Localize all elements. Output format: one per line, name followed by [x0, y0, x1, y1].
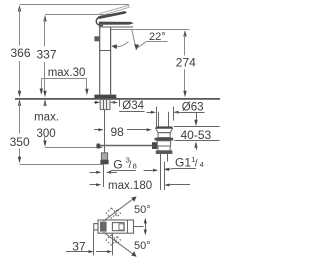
350 horizontal extension to hose end	[20, 164, 104, 166]
waste knob stem	[158, 112, 160, 127]
svg-text:4: 4	[200, 160, 204, 169]
svg-text:G1: G1	[175, 156, 191, 170]
svg-text:37: 37	[72, 239, 86, 253]
spout dark block	[100, 222, 107, 232]
swivel ray lower	[104, 232, 135, 255]
waste flange	[156, 126, 173, 128]
G1 1/4 pipe arrows	[144, 170, 153, 172]
svg-text:max.: max.	[34, 111, 59, 123]
dimension 274 extension line (spout underside level)	[111, 29, 190, 31]
waste body	[157, 141, 170, 146]
diameter 63 arrows	[147, 112, 152, 114]
body column right edge	[110, 27, 112, 95]
22 degree arc arrow	[115, 42, 129, 47]
cartridge rect	[112, 223, 124, 231]
spout top blade	[99, 22, 134, 25]
svg-text:max.180: max.180	[108, 180, 152, 192]
pop-up rod	[99, 145, 152, 147]
swivel span arrows	[134, 226, 144, 228]
hose end extension line	[103, 164, 105, 187]
aerator outlet	[94, 36, 99, 41]
dimension max.300 vertical line below counter	[43, 99, 46, 106]
svg-text:98: 98	[111, 125, 125, 139]
dimension 366 vertical line	[18, 5, 21, 12]
dimension 274 vertical line	[183, 30, 186, 37]
dimension 337 vertical line	[43, 15, 46, 22]
svg-text:350: 350	[10, 135, 30, 149]
locknut	[156, 151, 172, 154]
lever handle (down)	[98, 11, 127, 19]
body plan rect	[98, 220, 134, 233]
rod knob	[96, 144, 100, 149]
rod clamp	[152, 142, 157, 149]
svg-text:Ø63: Ø63	[182, 102, 204, 114]
dimension 350 vertical line below counter	[18, 99, 21, 106]
svg-text:G: G	[113, 157, 122, 171]
swivel square upper (dashed)	[106, 208, 116, 218]
lever raised outline	[99, 5, 128, 13]
svg-text:50°: 50°	[134, 240, 151, 252]
diameter 34 arrows	[94, 102, 99, 104]
G1 1/4 underline	[173, 168, 197, 170]
22 degree ray from spout corner	[132, 30, 137, 50]
body column left edge	[99, 25, 101, 95]
tailpipe upper	[160, 154, 162, 162]
22 degree label leader	[146, 41, 168, 43]
base plate	[94, 95, 116, 99]
dimension 98 right segment	[127, 129, 147, 131]
svg-text:/: /	[195, 159, 198, 170]
dimension 37 extension lines	[93, 231, 95, 256]
svg-text:50°: 50°	[134, 204, 151, 216]
svg-text:/: /	[129, 160, 132, 171]
lever pivot	[96, 17, 103, 26]
svg-text:366: 366	[11, 46, 31, 60]
svg-text:8: 8	[133, 162, 137, 171]
svg-text:40-53: 40-53	[181, 128, 212, 142]
svg-text:Ø34: Ø34	[122, 100, 144, 112]
body joint line	[100, 50, 111, 52]
svg-text:300: 300	[37, 128, 56, 140]
40-53 bottom arrow	[194, 141, 197, 148]
max.300 horizontal extension to rod knob	[45, 147, 98, 149]
dimension 366 extension line top	[20, 4, 130, 6]
max.180 right arrow	[164, 184, 169, 187]
40-53 top arrow	[196, 113, 198, 122]
tailpipe lower	[160, 162, 162, 191]
dimension 98 left arrow	[94, 129, 99, 131]
max.180 left arrow	[90, 184, 97, 186]
svg-text:max.30: max.30	[48, 67, 86, 79]
countertop line	[15, 98, 220, 100]
diameter 63 extension ticks	[156, 107, 158, 127]
swivel square lower (dashed)	[106, 235, 116, 245]
o-ring	[155, 138, 174, 141]
waste neck	[158, 133, 170, 138]
dimension 337 extension line top	[45, 14, 116, 16]
dimension 37 line	[66, 251, 89, 253]
spout blade underside edge	[99, 26, 133, 28]
svg-text:274: 274	[176, 55, 196, 69]
diameter 34 tick	[119, 100, 121, 107]
swivel ray upper	[104, 198, 135, 221]
diameter 34 underline	[119, 111, 144, 113]
dimension max.30	[41, 78, 87, 80]
body divider	[127, 220, 129, 233]
threaded shank	[100, 99, 110, 109]
supply hose	[104, 110, 106, 153]
hose end fitting	[101, 153, 107, 160]
aerator tab plan	[94, 224, 98, 230]
40-53 extension lines	[174, 126, 220, 128]
svg-text:337: 337	[37, 47, 57, 61]
G3/8 pair arrows	[90, 172, 97, 174]
svg-text:22°: 22°	[149, 31, 166, 43]
G3/8 underline	[111, 170, 136, 172]
cartridge inner square	[119, 224, 124, 230]
